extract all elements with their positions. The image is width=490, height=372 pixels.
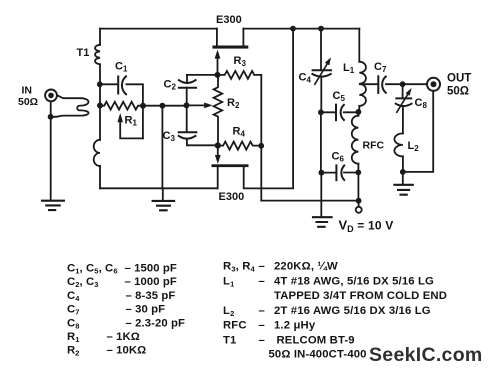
svg-text:E300: E300 (219, 191, 245, 203)
svg-text:R3: R3 (234, 55, 247, 68)
svg-text:– 2.3-20 pF: – 2.3-20 pF (126, 317, 186, 329)
svg-text:RFC: RFC (223, 320, 247, 332)
svg-text:R1: R1 (67, 331, 80, 344)
svg-text:– 1000 pF: – 1000 pF (125, 276, 177, 288)
svg-text:C7: C7 (374, 61, 387, 74)
svg-text:– 30 pF: – 30 pF (126, 304, 166, 316)
svg-text:C1, C5, C6: C1, C5, C6 (67, 263, 118, 276)
svg-text:T1: T1 (223, 335, 236, 347)
svg-text:– 1KΩ: – 1KΩ (107, 331, 140, 343)
svg-text:– 8-35 pF: – 8-35 pF (126, 290, 176, 302)
svg-text:2T #16 AWG 5/16 DX 3/16 LG: 2T #16 AWG 5/16 DX 3/16 LG (274, 305, 431, 317)
svg-text:–: – (259, 275, 265, 287)
svg-text:RFC: RFC (363, 140, 385, 152)
svg-text:–: – (259, 320, 265, 332)
svg-text:R1: R1 (125, 115, 138, 128)
svg-text:C4: C4 (299, 72, 312, 85)
svg-text:RELCOM BT-9: RELCOM BT-9 (277, 335, 355, 347)
svg-text:– 10KΩ: – 10KΩ (107, 345, 147, 357)
svg-text:– 1500 pF: – 1500 pF (125, 263, 177, 275)
svg-text:4T #18 AWG, 5/16 DX 5/16 LG: 4T #18 AWG, 5/16 DX 5/16 LG (274, 275, 434, 287)
svg-text:1.2 μHy: 1.2 μHy (274, 320, 316, 332)
svg-text:L2: L2 (408, 140, 420, 153)
svg-text:L2: L2 (223, 305, 234, 318)
svg-text:E300: E300 (216, 14, 242, 26)
svg-text:–: – (259, 261, 265, 273)
svg-text:SeekIC.com: SeekIC.com (369, 344, 483, 366)
svg-text:C4: C4 (67, 290, 80, 303)
svg-text:C3: C3 (163, 130, 176, 143)
svg-text:T1: T1 (77, 47, 90, 59)
svg-text:VD = 10 V: VD = 10 V (339, 218, 394, 235)
svg-text:50Ω: 50Ω (18, 96, 38, 108)
svg-text:50Ω: 50Ω (447, 86, 469, 98)
svg-text:L1: L1 (343, 62, 355, 75)
svg-text:C1: C1 (115, 61, 128, 74)
svg-text:50Ω IN-400CT-400: 50Ω IN-400CT-400 (269, 349, 367, 361)
svg-text:C8: C8 (67, 317, 80, 330)
svg-text:R4: R4 (233, 126, 246, 139)
svg-text:–: – (259, 305, 265, 317)
svg-text:–: – (259, 335, 265, 347)
svg-text:C5: C5 (333, 90, 346, 103)
svg-text:L1: L1 (223, 275, 234, 288)
svg-text:220KΩ, ¼W: 220KΩ, ¼W (274, 261, 338, 273)
svg-text:IN: IN (22, 85, 33, 97)
svg-text:C2: C2 (164, 79, 177, 92)
svg-text:C8: C8 (415, 97, 428, 110)
svg-text:C6: C6 (332, 151, 345, 164)
svg-text:TAPPED 3/4T FROM COLD END: TAPPED 3/4T FROM COLD END (274, 290, 447, 302)
svg-text:C7: C7 (67, 304, 80, 317)
svg-text:R2: R2 (67, 345, 80, 358)
svg-text:R3, R4: R3, R4 (223, 261, 256, 274)
svg-text:C2, C3: C2, C3 (67, 276, 99, 289)
svg-text:R2: R2 (227, 97, 240, 110)
svg-text:OUT: OUT (447, 73, 471, 85)
